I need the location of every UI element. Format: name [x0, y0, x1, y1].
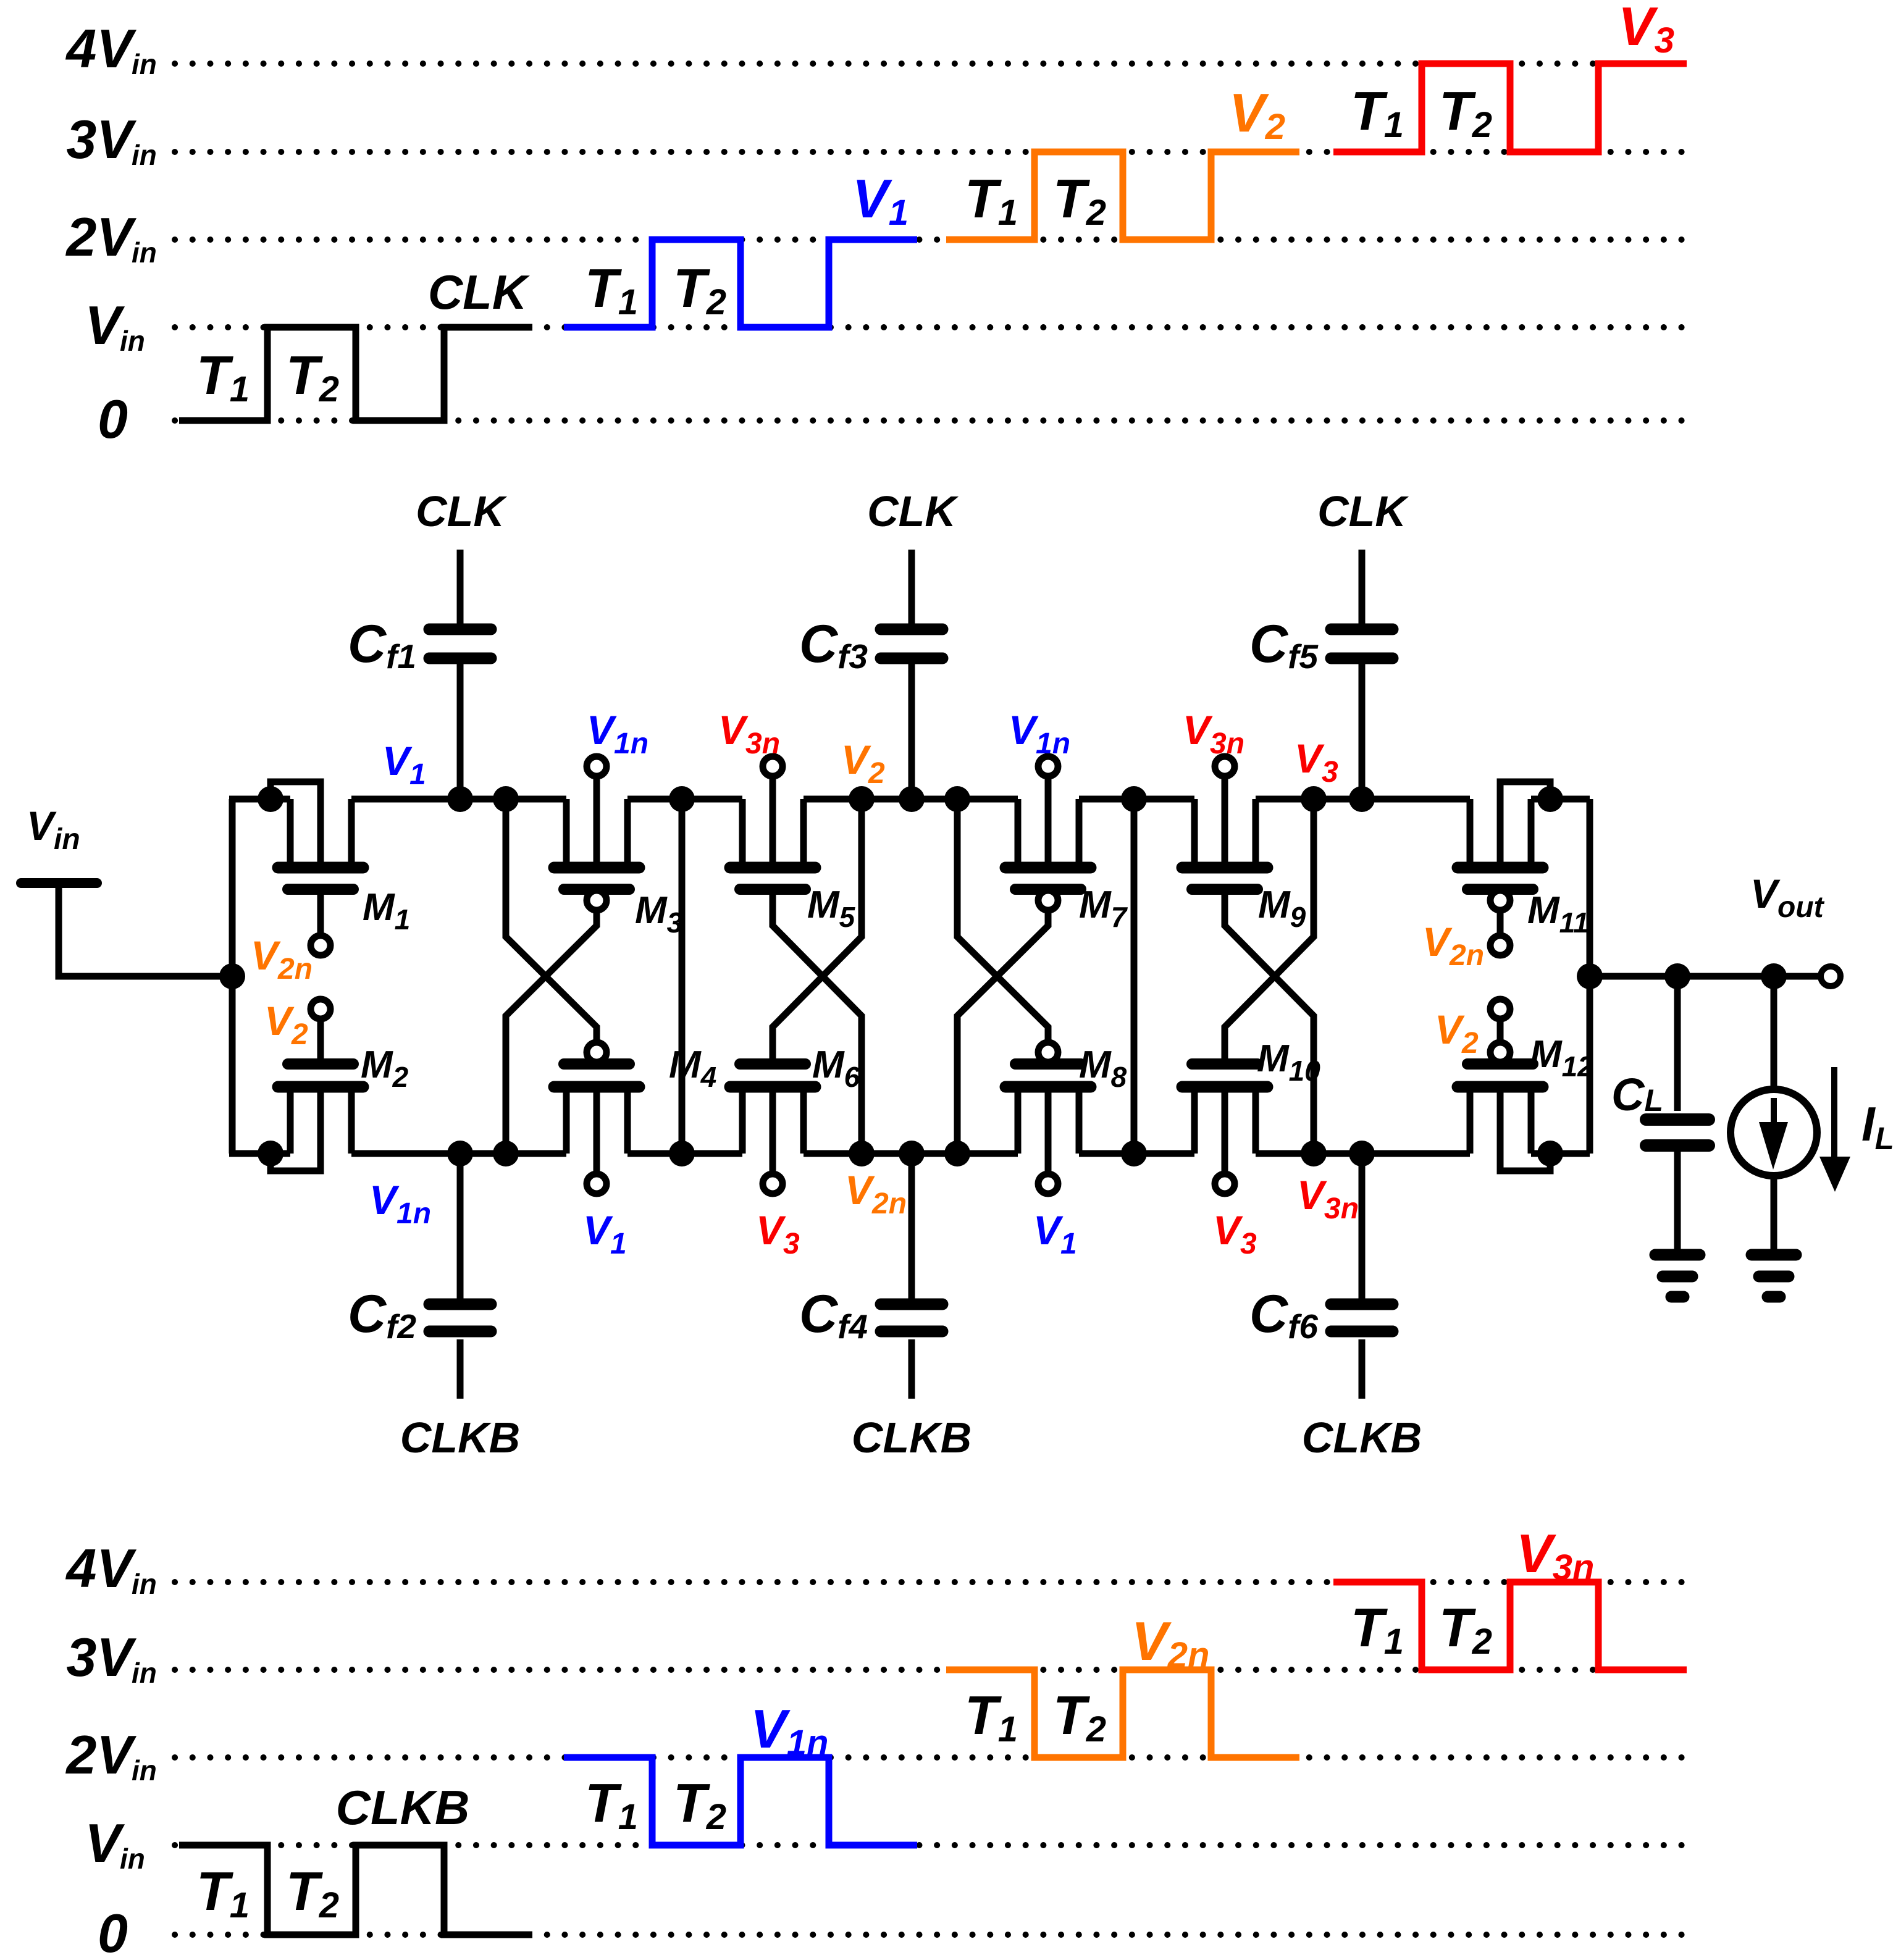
- transistor M9: [1182, 756, 1306, 933]
- wire bottom rail stage2 output: [1079, 1150, 1194, 1157]
- wire cross-couple from top rail: [1225, 799, 1314, 1058]
- node dot Cf4/rail: [899, 1141, 925, 1166]
- node dot tap top: [849, 786, 875, 812]
- svg-text:CLKB: CLKB: [400, 1413, 520, 1462]
- node dot tap top: [944, 786, 970, 812]
- wire top rail to M1: [229, 796, 290, 803]
- node dot stage2 bottom: [1121, 1141, 1147, 1166]
- svg-text:4V: 4V: [65, 1538, 136, 1599]
- gate circle top: [587, 890, 606, 910]
- wire bottom rail stage1 output: [627, 1150, 742, 1157]
- node dot stage1 top: [669, 786, 695, 812]
- waveform V2n (bottom, orange): [946, 1610, 1299, 1757]
- node dot stage1 bottom: [669, 1141, 695, 1166]
- transistor M3: [554, 756, 683, 939]
- wire output vertical: [1587, 799, 1593, 1154]
- transistor M4: [554, 1044, 716, 1194]
- svg-text:V: V: [85, 1812, 125, 1874]
- wire CLK lead: [457, 550, 464, 624]
- wire top rail V3 node: [1256, 796, 1470, 803]
- label IL with arrow: [1819, 1067, 1894, 1192]
- svg-text:3V: 3V: [66, 109, 136, 170]
- capacitor CL: [1611, 976, 1709, 1254]
- wire Cf5 to rail: [1359, 664, 1366, 799]
- node dot tap bottom: [1301, 1141, 1327, 1166]
- wire top rail stage2 output: [1079, 796, 1194, 803]
- gate circle bottom: [587, 1042, 606, 1062]
- waveform CLK (top): [179, 265, 532, 421]
- svg-text:CLKB: CLKB: [852, 1413, 971, 1462]
- node dot tap bottom: [849, 1141, 875, 1166]
- capacitor Cf5: [1249, 614, 1393, 676]
- transistor M5: [730, 756, 856, 933]
- waveform V1n (bottom, blue): [564, 1698, 917, 1845]
- svg-text:in: in: [132, 1754, 157, 1786]
- transistor M11: [1458, 782, 1588, 955]
- svg-text:3V: 3V: [66, 1627, 136, 1688]
- svg-text:CLK: CLK: [867, 487, 959, 535]
- current source IL: [1731, 976, 1817, 1254]
- wire CLK lead: [1359, 550, 1366, 624]
- transistor M1: [271, 782, 410, 955]
- node dot Cf1/rail: [447, 786, 473, 812]
- wire cross-couple from top rail: [957, 799, 1048, 1042]
- node dot Vout left: [1577, 963, 1603, 989]
- svg-text:CLK: CLK: [1317, 487, 1409, 535]
- node dot Cf3/rail: [899, 786, 925, 812]
- svg-text:0: 0: [98, 388, 128, 450]
- wire stage1 output vertical: [679, 799, 686, 1154]
- transistor M8: [1005, 1044, 1127, 1194]
- waveform CLKB (bottom): [179, 1780, 532, 1935]
- ground CL: [1655, 1255, 1700, 1297]
- wire CLKB lead: [909, 1339, 915, 1399]
- node dot M2 bulk: [258, 1141, 283, 1166]
- svg-text:CLKB: CLKB: [1302, 1413, 1422, 1462]
- transistor M7: [1005, 756, 1128, 933]
- wire cross-couple from bottom rail: [506, 910, 597, 1154]
- node dot tap top: [1301, 786, 1327, 812]
- wire left input rail: [229, 799, 236, 1154]
- ground IL: [1752, 1255, 1796, 1297]
- svg-text:in: in: [132, 139, 157, 171]
- waveform V2 (top, orange): [946, 82, 1299, 240]
- wire rail to Cf2: [457, 1154, 464, 1299]
- wire top rail V1 node: [351, 796, 566, 803]
- transistor M6: [730, 1044, 860, 1194]
- waveform V1 (top, blue): [564, 168, 917, 327]
- svg-text:2V: 2V: [65, 206, 136, 267]
- node dot Cf2/rail: [447, 1141, 473, 1166]
- svg-text:CLKB: CLKB: [336, 1780, 470, 1835]
- node dot tap top: [493, 786, 519, 812]
- wire cross-couple from bottom rail: [773, 895, 862, 1154]
- waveform V3n (bottom, red): [1333, 1523, 1687, 1670]
- svg-text:in: in: [120, 325, 145, 357]
- wire Vin to input node: [59, 883, 232, 976]
- terminal Vout open circle: [1821, 966, 1840, 986]
- svg-text:in: in: [132, 1657, 157, 1689]
- transistor M12: [1458, 999, 1593, 1171]
- svg-text:CLK: CLK: [416, 487, 507, 535]
- wire bottom rail to M2: [229, 1150, 290, 1157]
- node dot CL: [1664, 963, 1690, 989]
- gate circle bottom: [1038, 1042, 1058, 1062]
- wire cross-couple from top rail: [773, 799, 862, 1058]
- svg-text:4V: 4V: [65, 18, 136, 79]
- Vin terminal: [21, 803, 97, 883]
- capacitor Cf3: [799, 614, 942, 676]
- capacitor Cf4: [799, 1284, 942, 1346]
- node dot M11 bulk: [1537, 786, 1563, 812]
- node dot IL: [1761, 963, 1787, 989]
- top timing diagram axis: [65, 18, 1685, 450]
- svg-text:CLK: CLK: [428, 265, 531, 319]
- svg-text:in: in: [132, 48, 157, 80]
- wire top rail stage1 output: [627, 796, 742, 803]
- bottom timing diagram axis: [65, 1538, 1685, 1960]
- wire top rail to output corner: [1531, 796, 1590, 803]
- wire rail to Cf6: [1359, 1154, 1366, 1299]
- transistor M10: [1182, 1037, 1320, 1194]
- wire cross-couple from bottom rail: [957, 910, 1048, 1154]
- wire bottom rail V2 node: [804, 1150, 1018, 1157]
- node dot Cf5/rail: [1349, 786, 1375, 812]
- wire bottom rail V3 node: [1256, 1150, 1470, 1157]
- wire CLK lead: [909, 550, 915, 624]
- svg-text:V: V: [85, 295, 125, 356]
- capacitor Cf2: [348, 1284, 491, 1346]
- wire rail to Cf4: [909, 1154, 915, 1299]
- waveform V3 (top, red): [1333, 0, 1687, 152]
- wire bottom rail V1 node: [351, 1150, 566, 1157]
- node dot M1 bulk: [258, 786, 283, 812]
- wire Cf1 to rail: [457, 664, 464, 799]
- wire cross-couple from top rail: [506, 799, 597, 1042]
- wire cross-couple from bottom rail: [1225, 895, 1314, 1154]
- wire Vout rail: [1590, 973, 1820, 980]
- wire CLKB lead: [457, 1339, 464, 1399]
- svg-text:in: in: [132, 237, 157, 269]
- wire bottom rail to output corner: [1531, 1150, 1590, 1157]
- capacitor Cf6: [1249, 1284, 1393, 1346]
- node dot stage2 top: [1121, 786, 1147, 812]
- transistor M2: [271, 999, 409, 1171]
- node dot M12 bulk: [1537, 1141, 1563, 1166]
- node dot Cf6/rail: [1349, 1141, 1375, 1166]
- svg-text:in: in: [120, 1843, 145, 1875]
- wire top rail V2 node: [804, 796, 1018, 803]
- wire Cf3 to rail: [909, 664, 915, 799]
- wire CLKB lead: [1359, 1339, 1366, 1399]
- capacitor Cf1: [348, 614, 491, 676]
- svg-text:in: in: [132, 1568, 157, 1600]
- node dot tap bottom: [493, 1141, 519, 1166]
- svg-text:0: 0: [98, 1903, 128, 1960]
- gate circle top: [1038, 890, 1058, 910]
- svg-text:2V: 2V: [65, 1724, 136, 1785]
- node dot tap bottom: [944, 1141, 970, 1166]
- wire stage2 output vertical: [1131, 799, 1138, 1154]
- node input junction dot: [219, 963, 245, 989]
